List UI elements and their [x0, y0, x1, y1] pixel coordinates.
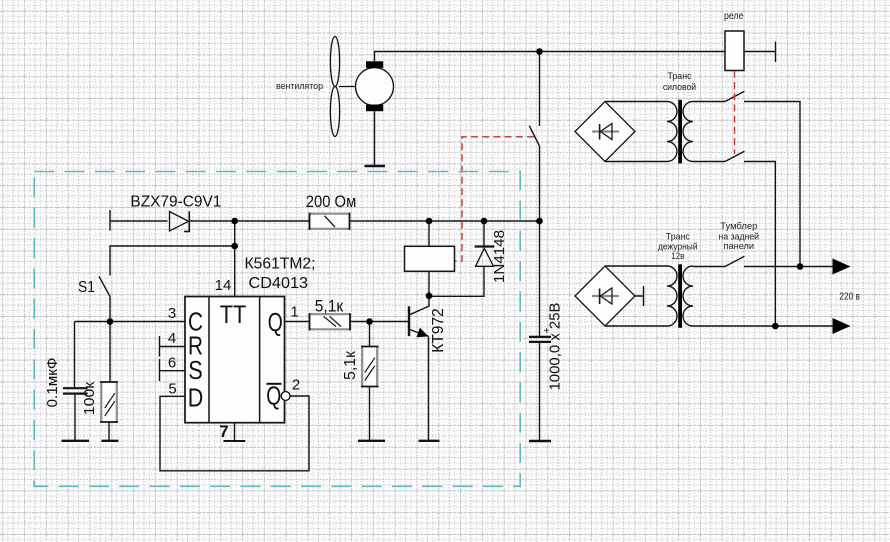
transistor Q1 emitter arrow	[417, 328, 429, 338]
svg-text:220 в: 220 в	[839, 292, 860, 303]
wire zener input terminal	[110, 210, 168, 231]
diode VD2 1N4148 cathode bar	[475, 245, 495, 247]
svg-text:2: 2	[292, 377, 300, 394]
wire T1 secondary bottom to switch	[693, 161, 725, 163]
svg-text:0.1мкФ: 0.1мкФ	[45, 358, 61, 408]
fan blade lower	[330, 87, 339, 137]
IC divider left	[208, 297, 210, 423]
wire electrolytic bottom	[539, 343, 541, 440]
svg-text:200 Ом: 200 Ом	[306, 192, 357, 211]
fan shaft link	[339, 86, 356, 88]
ground under 5.1k	[358, 440, 385, 442]
capacitor C2 1000uF plates	[529, 337, 551, 342]
wire diode 1N4148 cathode to rail	[483, 221, 485, 246]
wire bridge2 output terminal	[635, 286, 644, 306]
IC divider right	[259, 297, 261, 423]
wire R 100k top	[109, 322, 111, 383]
ground under C1	[62, 440, 90, 442]
transformer T2 secondary winding	[683, 266, 693, 326]
wire mains bottom line to arrow	[693, 325, 834, 327]
wire pin7 ground	[234, 423, 236, 441]
transformer T1 secondary winding	[683, 102, 693, 162]
transformer T1 primary winding	[667, 102, 677, 162]
arrow mains top	[833, 259, 851, 275]
svg-text:BZX79-C9V1: BZX79-C9V1	[130, 194, 221, 211]
svg-text:D: D	[188, 385, 204, 413]
dashed control-box outline	[34, 172, 520, 487]
terminal bar under C2	[529, 440, 551, 442]
wire T2 secondary top to mains switch	[693, 266, 725, 268]
bridge rectifier VD3 body	[575, 102, 635, 162]
wire switch top to right drop	[744, 102, 800, 267]
wire bridge2 to primary bottom	[605, 325, 667, 327]
mechanical link relay (red dashed)	[734, 71, 736, 154]
notQ overbar	[267, 383, 282, 385]
node S1 bottom	[107, 318, 114, 325]
wire switch bottom to drop x=775	[744, 162, 775, 327]
svg-text:12в: 12в	[671, 251, 684, 262]
svg-text:реле: реле	[724, 11, 744, 22]
fan blade upper	[330, 37, 339, 87]
node top rail x540	[536, 48, 543, 55]
svg-text:5,1к: 5,1к	[315, 297, 344, 316]
relay K1 contact box	[725, 31, 744, 71]
wire emitter down to ground	[428, 337, 430, 441]
bridge VD3 diode symbol	[592, 124, 619, 140]
motor brush top	[366, 61, 383, 68]
node base divider	[366, 318, 373, 325]
wire 5.1k vertical top	[369, 322, 371, 347]
wire electrolytic top	[539, 221, 541, 336]
switch S1 blade	[99, 276, 110, 296]
svg-text:силовой: силовой	[663, 82, 696, 93]
node rail x484	[481, 218, 488, 225]
wire coil K1 top	[428, 221, 430, 247]
wire pin5 D feedback loop	[160, 396, 309, 471]
wire R 100k bottom	[108, 422, 110, 440]
svg-text:К561ТМ2;: К561ТМ2;	[245, 255, 316, 272]
wire bridge1 to primary top	[605, 101, 667, 103]
svg-text:100к: 100к	[82, 381, 98, 415]
relay contact K1.1 blade	[529, 126, 539, 146]
wire collector up to coil	[428, 271, 430, 296]
transformer T1 core	[678, 100, 682, 164]
svg-text:5: 5	[168, 381, 176, 398]
wire pin1 Q to resistor	[285, 321, 310, 323]
bridge VD4 diode symbol	[592, 288, 619, 304]
transistor Q1 emitter	[410, 330, 429, 337]
svg-text:панели: панели	[724, 241, 755, 252]
wire rail 200ohm to cap drop	[350, 220, 540, 222]
wire resistor to base	[350, 321, 408, 323]
zener VD1 BZX79	[170, 211, 190, 231]
svg-text:1: 1	[290, 304, 298, 321]
node collector	[426, 293, 433, 300]
wire T1 secondary top to switch	[693, 101, 725, 103]
transformer T2 core	[678, 264, 682, 328]
svg-text:Тумблер: Тумблер	[720, 221, 757, 232]
svg-text:TT: TT	[220, 301, 247, 329]
svg-text:КТ972: КТ972	[430, 308, 447, 353]
mechanical link K1.1 (red dashed)	[455, 137, 535, 261]
switch contact top blade	[725, 91, 745, 101]
wire top rail from motor to relay	[375, 52, 726, 62]
wire 5.1k vertical bottom	[369, 387, 371, 441]
switch contact bottom blade	[725, 151, 745, 161]
transistor Q1 base bar	[408, 306, 410, 336]
node rail x540	[536, 218, 543, 225]
mains toggle switch blade	[725, 256, 745, 266]
wire S1 top link	[110, 246, 235, 276]
svg-text:CD4013: CD4013	[249, 275, 309, 292]
wire zener to rail	[190, 220, 310, 222]
ground fan motor	[365, 165, 386, 167]
resistor R2 100k	[100, 382, 118, 422]
svg-text:1N4148: 1N4148	[491, 230, 508, 283]
ground under pin7	[224, 440, 246, 442]
wire pin6 S stub	[160, 359, 186, 381]
svg-text:вентилятор: вентилятор	[276, 81, 323, 92]
transistor Q1 collector	[410, 296, 430, 315]
svg-text:14: 14	[215, 277, 232, 294]
resistor R1 200ohm	[310, 213, 350, 230]
resistor R3 5.1k horizontal	[310, 313, 351, 330]
wire S1 bottom	[109, 297, 111, 322]
inversion bubble	[281, 392, 290, 401]
node x235 y246	[231, 243, 238, 250]
node rail x429	[426, 218, 433, 225]
wire pin3 C input	[75, 321, 186, 323]
wire motor bottom to ground	[374, 111, 376, 165]
resistor R4 5.1k vertical	[361, 347, 379, 387]
svg-text:Q: Q	[266, 383, 281, 411]
wire mains top line to arrow	[744, 266, 834, 268]
wire bridge1 to primary bottom	[605, 161, 667, 163]
motor brush bottom	[366, 105, 383, 112]
svg-text:4: 4	[168, 330, 176, 347]
transformer T2 primary winding	[667, 266, 677, 326]
node mains bottom	[772, 323, 779, 330]
arrow mains bottom	[833, 318, 851, 334]
svg-text:6: 6	[168, 355, 176, 372]
node mains top	[797, 263, 804, 270]
bridge rectifier VD4 body	[575, 266, 635, 326]
diode VD2 1N4148 triangle	[476, 248, 494, 266]
svg-text:1000,0 х 25В: 1000,0 х 25В	[547, 303, 564, 391]
wire coil bottom to diode anode	[429, 267, 484, 297]
ground under 100k	[102, 440, 119, 442]
motor M1 body	[356, 68, 394, 106]
wire pin4 R stub	[160, 336, 186, 357]
svg-text:S: S	[188, 357, 203, 385]
capacitor C1 0.1uF plates	[63, 388, 88, 393]
wire cap C1 top	[74, 322, 76, 388]
svg-text:Q: Q	[268, 309, 283, 337]
wire pin14 drop	[234, 221, 236, 297]
svg-text:5,1к: 5,1к	[342, 351, 359, 380]
IC U1 flip-flop box	[185, 297, 285, 423]
svg-text:S1: S1	[78, 279, 95, 296]
ground under emitter	[419, 440, 440, 442]
svg-text:Транс: Транс	[668, 71, 692, 82]
wire switch drop at x=540	[539, 52, 541, 222]
svg-text:3: 3	[168, 305, 176, 322]
wire cap C1 bottom	[74, 395, 76, 440]
relay coil K1 box	[405, 246, 455, 271]
node rail x235	[231, 218, 238, 225]
wire bridge2 to primary top	[605, 265, 667, 267]
wire relay right terminal	[744, 42, 776, 63]
svg-text:7: 7	[219, 423, 228, 441]
